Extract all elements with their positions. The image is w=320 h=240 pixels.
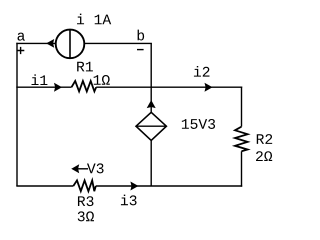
resistor R3 [73,180,96,191]
label i3 [121,195,137,206]
wire: dependent source to bottom rail [150,140,152,186]
current source I (circle with vertical bar) [56,29,85,58]
plus polarity at node a [17,47,24,54]
current arrow of source i (pointing left toward node a) [47,40,54,47]
label i2 [194,66,210,77]
current arrow i1 [55,84,62,91]
label 15V3 [182,119,215,129]
node b label [138,30,145,41]
dependent source 15V3 (diamond with horizontal bar) [136,112,166,140]
voltage arrow V3 (pointing left above R3) [72,165,88,172]
wire: left vertical rail (node a down to bottom-left corner) [16,43,18,186]
wire: node b corner down to middle rail [150,43,152,87]
dependent source current arrow (pointing up) [148,101,155,108]
wire: middle rail down to dependent source [150,87,152,112]
wire: middle rail left segment (left rail to R1) [16,86,71,88]
wire: bottom rail right segment (R3 to bottom-right corner) [96,185,242,187]
wire: right vertical rail bottom segment [241,151,243,186]
label i1 [32,74,48,85]
resistor R2 [235,127,248,152]
label 2Ω [256,151,272,161]
wire: right vertical rail top segment [241,87,243,127]
wire: bottom rail left segment (left rail to R3) [16,185,73,187]
label V3 [87,163,104,173]
label i 1A (source value) [77,14,111,25]
current arrow i2 [205,84,212,91]
wire: current source to node b corner [85,42,152,44]
current arrow i3 [131,182,138,189]
wire: top rail from node a to current source [16,42,55,44]
label R1 [77,62,93,72]
label 3Ω [78,211,94,221]
label 1Ω [94,75,110,85]
minus polarity at node b [137,49,144,51]
wire: middle rail right segment (R1 to right rail) [96,86,242,88]
label R3 [78,196,94,206]
node a label [18,33,25,41]
resistor R1 [72,81,97,91]
label R2 [257,134,272,144]
